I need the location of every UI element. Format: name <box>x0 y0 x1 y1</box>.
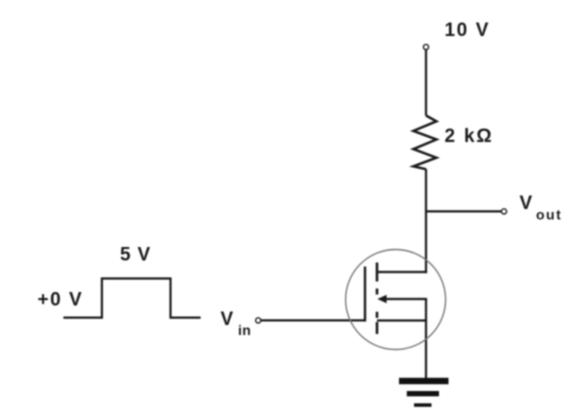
svg-text:out: out <box>536 207 562 223</box>
svg-text:+0 V: +0 V <box>38 290 84 311</box>
svg-text:in: in <box>238 322 251 338</box>
svg-text:V: V <box>221 309 234 330</box>
svg-text:V: V <box>520 193 533 214</box>
svg-text:2 kΩ: 2 kΩ <box>445 126 494 147</box>
svg-text:10 V: 10 V <box>445 20 491 41</box>
svg-text:5 V: 5 V <box>120 244 151 265</box>
